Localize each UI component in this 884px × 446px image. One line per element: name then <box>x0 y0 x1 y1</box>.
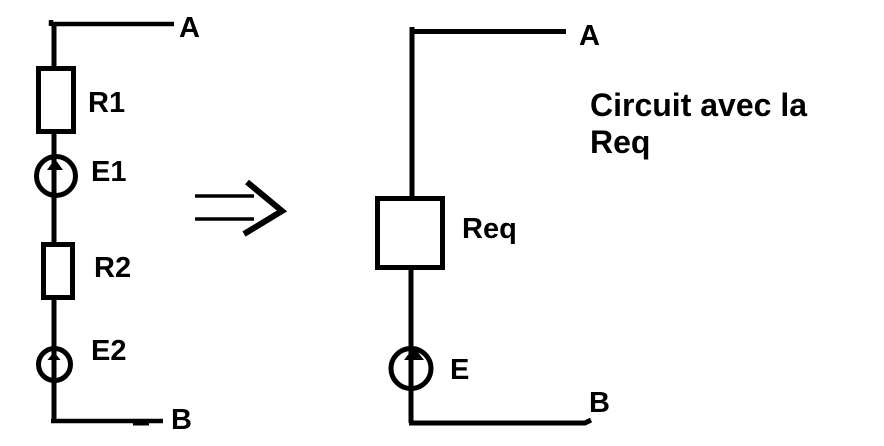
svg-text:E1: E1 <box>91 156 126 188</box>
svg-text:Req: Req <box>462 213 517 245</box>
svg-text:Circuit avec la: Circuit avec la <box>590 87 807 123</box>
svg-text:B: B <box>171 404 192 436</box>
source E2 (circle with up arrow) <box>39 344 71 384</box>
wire: E down to bottom corner <box>409 388 414 423</box>
svg-text:Req: Req <box>590 124 650 160</box>
svg-text:E: E <box>450 354 469 386</box>
svg-text:B: B <box>589 387 610 419</box>
svg-text:E2: E2 <box>91 335 126 367</box>
svg-text:R1: R1 <box>88 87 125 119</box>
resistor Req <box>378 199 443 268</box>
equivalence arrow (double-line arrow) <box>195 182 282 234</box>
wire: right circuit top horizontal from corner to node A <box>410 27 566 34</box>
source E (circle with up arrow) <box>391 346 431 391</box>
wire: left circuit top horizontal from corner to node A <box>51 20 174 26</box>
svg-text:A: A <box>179 12 200 44</box>
source E1 (circle with up arrow) <box>37 156 76 196</box>
caption "Circuit avec la Req" <box>590 87 807 160</box>
wire: E1 to R2 <box>52 196 57 244</box>
resistor R2 <box>44 245 73 298</box>
wire: E2 down to bottom corner <box>52 381 57 421</box>
wire: right circuit bottom horizontal to node B <box>409 420 591 423</box>
resistor R1 <box>39 69 74 132</box>
wire: R2 to E2 <box>52 297 57 348</box>
svg-text:A: A <box>579 20 600 52</box>
svg-text:R2: R2 <box>94 252 131 284</box>
wire: left circuit bottom horizontal to node B <box>51 421 163 424</box>
wire: right circuit vertical from top corner down to resistor Req <box>410 29 415 198</box>
wire: R1 to E1 <box>52 131 57 156</box>
wire: Req to E <box>409 268 414 348</box>
wire: left circuit vertical from top corner down to resistor R1 <box>52 22 57 68</box>
